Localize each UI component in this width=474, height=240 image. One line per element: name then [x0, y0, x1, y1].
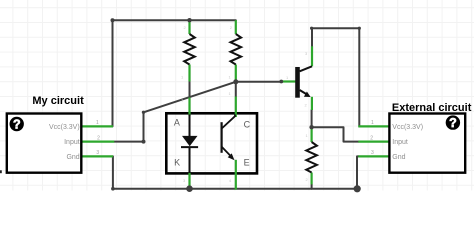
svg-text:Input: Input: [392, 139, 408, 146]
svg-text:?: ?: [449, 116, 457, 130]
svg-text:E: E: [244, 158, 250, 168]
svg-text:2: 2: [370, 135, 373, 141]
svg-text:?: ?: [13, 118, 21, 132]
svg-text:Gnd: Gnd: [392, 154, 405, 161]
svg-text:1: 1: [96, 120, 99, 126]
svg-text:K: K: [174, 158, 180, 168]
svg-text:A: A: [174, 118, 180, 128]
svg-text:Vcc(3.3V): Vcc(3.3V): [49, 124, 80, 131]
svg-text:3: 3: [96, 150, 99, 156]
svg-text:C: C: [244, 119, 251, 129]
svg-text:1: 1: [371, 120, 374, 126]
svg-text:My circuit: My circuit: [32, 95, 84, 107]
svg-text:External circuit: External circuit: [392, 102, 472, 114]
svg-text:Input: Input: [64, 139, 80, 146]
svg-text:Gnd: Gnd: [66, 154, 79, 161]
svg-text:Vcc(3.3V): Vcc(3.3V): [392, 124, 423, 131]
svg-text:3: 3: [371, 150, 374, 156]
svg-text:2: 2: [97, 135, 100, 141]
